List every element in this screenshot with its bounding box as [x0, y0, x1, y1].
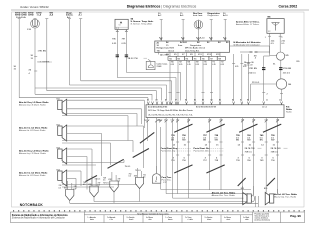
- G3 slash top: [239, 124, 257, 132]
- shield symbol on wire c: [194, 20, 203, 29]
- inline connector X8 on feed: [240, 52, 270, 60]
- radio out wires lower left: [95, 118, 161, 185]
- svg-text:15: 15: [184, 145, 187, 147]
- left connector label X6 on wire 2: [31, 51, 47, 61]
- svg-text:LS+ LS- RS+ RS- LD+ L: LS+ LS- RS+ RS- LD+ LD- RD+ RD- Tr.E+ Tr…: [148, 114, 193, 117]
- svg-text:SW: SW: [271, 140, 275, 142]
- speaker LD wires: [62, 149, 124, 190]
- funnel feed wires: [68, 168, 142, 190]
- bottom return wire 2: [94, 201, 247, 203]
- wire bundle line 2 (S4 left): [117, 77, 176, 79]
- speaker LD front label: [18, 148, 60, 156]
- svg-text:0.35 BN/WS: 0.35 BN/WS: [38, 62, 50, 64]
- rear speaker left wires: [243, 186, 259, 207]
- svg-text:15: 15: [14, 69, 17, 71]
- svg-text:K7: K7: [182, 54, 185, 56]
- G2 slash bottom: [206, 165, 224, 173]
- lower column G4 wire b: [276, 118, 279, 194]
- svg-text:3 = Fijación: 3 = Fijación: [205, 217, 213, 219]
- top-left feed label col 5: [79, 12, 83, 16]
- svg-text:Proveedor para Señal: Proveedor para Señal: [255, 212, 270, 215]
- antenna label left: [235, 20, 260, 26]
- lower column G3 wire b: [252, 118, 255, 196]
- I4 feed wire b: [182, 20, 184, 41]
- svg-text:14: 14: [205, 145, 208, 147]
- svg-text:1 = Aterrado: 1 = Aterrado: [88, 216, 96, 219]
- svg-text:764: 764: [185, 58, 188, 60]
- svg-text:A-A: A-A: [50, 14, 54, 17]
- svg-text:K-8: K-8: [209, 38, 213, 40]
- wire bundle line 1 (S4 right): [126, 71, 180, 73]
- lower column G1 wire b: [187, 118, 190, 199]
- svg-text:0.5: 0.5: [143, 177, 145, 179]
- svg-text:750: 750: [271, 160, 275, 162]
- svg-text:X32: X32: [108, 179, 111, 181]
- G1 door separator: [161, 147, 192, 153]
- svg-text:2 = Aterrado: 2 = Aterrado: [107, 216, 115, 219]
- footer legend cells: [88, 212, 271, 221]
- svg-text:B1 B2 B3 B4 B5 B6 B7 B8: B1 B2 B3 B4 B5 B6 B7 B8: [196, 107, 216, 109]
- M motor circle 2: [276, 79, 292, 101]
- speaker RS front label: [18, 125, 60, 133]
- rear return corner C: [173, 118, 244, 199]
- wire code labels above I4 box: [159, 38, 227, 40]
- svg-text:c/ fio: c/ fio: [110, 219, 113, 221]
- svg-text:15: 15: [31, 58, 34, 60]
- M5 motor circle: [277, 52, 290, 79]
- svg-text:758: 758: [215, 160, 219, 162]
- harness slash 2: [108, 159, 124, 168]
- S4 sensor box: [115, 19, 128, 30]
- svg-text:C1: C1: [266, 100, 268, 102]
- svg-text:214 0.5: 214 0.5: [249, 73, 257, 75]
- svg-text:15: 15: [249, 145, 252, 147]
- G4 slash top: [263, 124, 281, 132]
- svg-text:SW: SW: [215, 140, 219, 142]
- svg-text:X6: X6: [29, 70, 32, 72]
- pin labels above radio: [147, 99, 281, 102]
- G1 labels: [171, 135, 187, 162]
- funnel splice 1: [64, 187, 74, 203]
- svg-text:747 0.5: 747 0.5: [103, 183, 109, 185]
- svg-text:763: 763: [177, 58, 180, 60]
- funnel feed labels: [59, 174, 146, 191]
- R4 bottom pin labels: [158, 119, 279, 121]
- svg-text:MF Info Áudio Check: MF Info Áudio Check: [185, 46, 206, 49]
- wire feed 5: [80, 19, 82, 81]
- svg-text:BN: BN: [260, 140, 263, 142]
- G4 slash bottom: [267, 178, 275, 186]
- svg-text:4 = Massa: 4 = Massa: [146, 217, 153, 219]
- top-left feed label col 3: [36, 12, 42, 16]
- G4 separator: [271, 148, 288, 154]
- svg-text:0.35: 0.35: [179, 64, 182, 66]
- harness bundle horizontals: [19, 72, 180, 100]
- speaker RD front symbol: [58, 170, 67, 186]
- labels below M5: [244, 62, 276, 67]
- right loop wire to radio: [251, 82, 277, 101]
- svg-text:0.5: 0.5: [129, 176, 131, 178]
- svg-text:Ant. Elétr.: Ant. Elétr.: [160, 54, 170, 57]
- svg-text:Puerta Del. Izq.: Puerta Del. Izq.: [161, 150, 176, 153]
- wire bundle line 8 (feed 1): [19, 97, 148, 99]
- svg-text:15: 15: [216, 145, 219, 147]
- svg-text:765: 765: [194, 58, 197, 60]
- header rule: [11, 9, 309, 11]
- top-left feed label col 2: [28, 12, 34, 16]
- I4 top feed label 30: [158, 13, 162, 17]
- svg-text:Diagramas Elétricos | Diagrama: Diagramas Elétricos | Diagramas Eléctric…: [127, 5, 197, 9]
- svg-text:757: 757: [203, 160, 207, 162]
- S4 stub forks: [116, 30, 127, 32]
- svg-text:X30: X30: [64, 187, 67, 189]
- svg-text:0.35: 0.35: [204, 64, 207, 66]
- svg-text:0.35: 0.35: [112, 43, 117, 45]
- I4 top feed label ilum: [193, 13, 203, 17]
- svg-text:cable: cable: [245, 219, 249, 221]
- svg-text:768: 768: [218, 58, 221, 60]
- footer left text: [12, 214, 69, 220]
- wire feed 1: [18, 19, 20, 98]
- rear speaker left label: [211, 188, 244, 197]
- svg-text:B1: B1: [185, 100, 187, 102]
- svg-text:Radio: Radio: [286, 112, 292, 114]
- svg-text:A-2: A-2: [158, 14, 162, 17]
- svg-text:14: 14: [238, 145, 241, 147]
- I4 top feed label diagnostico: [208, 12, 221, 17]
- svg-text:0.5: 0.5: [271, 43, 275, 45]
- svg-text:Sinais de massa p/ os: Sinais de massa p/ os: [255, 215, 270, 217]
- harness slash 3: [133, 149, 149, 158]
- svg-text:0.5: 0.5: [98, 185, 100, 187]
- top-left feed label col 3b: [50, 12, 54, 16]
- svg-text:751 0.5: 751 0.5: [135, 170, 141, 172]
- I4 feed wire a: [160, 20, 162, 41]
- svg-text:1 2: 1 2: [268, 31, 270, 33]
- svg-text:0.5: 0.5: [74, 188, 76, 190]
- svg-text:RD: RD: [297, 61, 301, 63]
- svg-text:A4 A10: A4 A10: [180, 41, 188, 44]
- wire bundle line 6 (feed 3): [47, 90, 157, 92]
- svg-text:Versão / Version: 5951/02: Versão / Version: 5951/02: [20, 6, 49, 9]
- R4 box inner pin labels: [148, 106, 267, 117]
- wire down mid right: [264, 56, 270, 101]
- I4 box inner pin text top row: [157, 41, 230, 45]
- svg-text:215 0.5: 215 0.5: [283, 73, 291, 75]
- svg-text:K-6: K-6: [181, 38, 185, 40]
- wire feed 3: [46, 19, 48, 91]
- svg-text:3: 3: [238, 157, 240, 159]
- svg-text:753: 753: [158, 120, 161, 122]
- svg-text:Antena Elétr. C/ Telesc.: Antena Elétr. C/ Telesc.: [236, 20, 260, 23]
- I4 feed wire e: [224, 20, 226, 41]
- left connector label X2 on wire 2: [38, 62, 53, 64]
- svg-text:K9: K9: [190, 54, 193, 56]
- svg-text:1791 BN: 1791 BN: [249, 68, 258, 70]
- I4 below-connector labels: [171, 61, 224, 65]
- speaker RD wires: [62, 171, 137, 189]
- svg-text:K11: K11: [198, 54, 202, 56]
- svg-text:213 0.5: 213 0.5: [252, 82, 260, 84]
- svg-text:Alto-fal. Esq. LD Diant. Rádio: Alto-fal. Esq. LD Diant. Rádio: [19, 150, 49, 153]
- svg-text:Antena Eléctr. C/ Telesc.: Antena Eléctr. C/ Telesc.: [235, 23, 260, 26]
- svg-text:0.35: 0.35: [122, 43, 127, 45]
- top-left feed label col 4: [66, 12, 74, 18]
- coordinate ruler dots: [13, 210, 305, 211]
- svg-text:Altavoz Izq. Tras. Radio: Altavoz Izq. Tras. Radio: [273, 196, 297, 199]
- svg-text:BN: BN: [203, 140, 206, 142]
- svg-text:Altavoz Izq. LS Diant. Radio: Altavoz Izq. LS Diant. Radio: [18, 104, 46, 107]
- lower column G2 wire b: [220, 118, 223, 191]
- top-left feed label col 1: [15, 12, 27, 18]
- lower column G2 wire a: [208, 118, 211, 191]
- svg-text:Sistema de Radio/Audio e Infor: Sistema de Radio/Audio e Información del…: [12, 217, 65, 220]
- svg-text:K-2: K-2: [159, 38, 163, 40]
- rear antenna dome connector: [152, 166, 172, 184]
- svg-text:C2: C2: [279, 100, 281, 102]
- svg-text:Data Temp.Ext.: Data Temp.Ext.: [185, 49, 200, 52]
- funnel splice 2: [88, 184, 98, 202]
- wire bundle line 5 (feed 2): [35, 87, 162, 89]
- svg-text:3: 3: [205, 157, 207, 159]
- R4 input arrows on top edge: [147, 102, 282, 105]
- svg-text:NOTCHBACK: NOTCHBACK: [20, 203, 44, 207]
- svg-text:3: 3: [261, 157, 263, 159]
- R4 label right: [286, 106, 293, 114]
- svg-text:M5: M5: [286, 55, 290, 57]
- wire bundle line 3 (feed 5): [81, 80, 172, 82]
- svg-text:15: 15: [273, 145, 276, 147]
- coax feed from I4: [128, 52, 170, 61]
- left wire tick labels lower: [29, 70, 38, 76]
- funnel splice 3: [108, 179, 118, 204]
- svg-text:K5: K5: [174, 54, 177, 56]
- speaker RS wires: [62, 126, 144, 176]
- svg-text:Relógio Data RDS: Relógio Data RDS: [157, 46, 175, 49]
- svg-text:750 0.5: 750 0.5: [125, 166, 131, 168]
- svg-text:0.35: 0.35: [235, 66, 238, 68]
- svg-text:F16: F16: [27, 29, 31, 31]
- svg-text:746 0.5: 746 0.5: [95, 179, 101, 181]
- I4 box inner text rows: [157, 44, 206, 53]
- harness slash 1: [86, 176, 98, 182]
- svg-text:6: 6: [216, 157, 218, 159]
- svg-text:chassi: chassi: [129, 219, 134, 221]
- svg-text:2: 2: [282, 37, 283, 39]
- connector ticks right area: [262, 93, 283, 96]
- lower column G4 wire a: [265, 118, 268, 193]
- rear speaker right wires: [266, 186, 277, 194]
- G1 slash top: [174, 124, 192, 132]
- svg-text:X33: X33: [134, 175, 137, 177]
- svg-text:Alto-fal. Esq. LS Diant. Rádio: Alto-fal. Esq. LS Diant. Rádio: [19, 101, 49, 104]
- svg-text:B2: B2: [194, 100, 196, 102]
- frame left small labels: [14, 66, 17, 71]
- svg-text:C/TID: C/TID: [28, 15, 34, 17]
- svg-text:B8: B8: [247, 100, 249, 102]
- svg-text:0.5: 0.5: [281, 43, 285, 45]
- svg-text:14: 14: [261, 145, 264, 147]
- M6 wire down 1: [265, 33, 275, 53]
- svg-text:749: 749: [260, 160, 264, 162]
- svg-text:B3: B3: [202, 100, 204, 102]
- svg-text:766: 766: [202, 58, 205, 60]
- svg-text:SW: SW: [247, 140, 251, 142]
- svg-text:S4: S4: [119, 24, 121, 26]
- svg-text:SW: SW: [182, 140, 186, 142]
- svg-text:Altavoz Izq. LD Diant. Radio: Altavoz Izq. LD Diant. Radio: [18, 152, 47, 155]
- G2 slash top: [206, 124, 224, 132]
- svg-text:Masa 30: Masa 30: [244, 64, 253, 66]
- G3 separator: [245, 148, 262, 154]
- svg-text:X31: X31: [88, 184, 91, 186]
- svg-text:Porta Diant. Dir.: Porta Diant. Dir.: [194, 147, 210, 150]
- svg-text:Alto-fal. LE Tras. Rádio: Alto-fal. LE Tras. Rádio: [274, 193, 298, 196]
- M6 antenna unit box: [267, 19, 284, 34]
- svg-text:B16: B16: [264, 188, 267, 190]
- svg-text:1: 1: [265, 37, 266, 39]
- svg-text:Corsa 2002: Corsa 2002: [279, 5, 298, 9]
- svg-text:2B.7E.749: 2B.7E.749: [271, 148, 282, 150]
- I4 top feed label 15: [180, 13, 184, 17]
- I4 display box: [155, 41, 230, 52]
- inline connector bars on wire 263.7: [249, 67, 266, 74]
- svg-text:Pág. 96: Pág. 96: [290, 214, 301, 218]
- I4 feed wire d: [210, 20, 212, 41]
- svg-text:759: 759: [236, 160, 240, 162]
- svg-text:31: 31: [155, 181, 157, 183]
- I4 label right: [234, 41, 262, 47]
- svg-text:4: 4: [29, 73, 31, 75]
- wire feed 2 (through fuse): [34, 18, 36, 21]
- svg-text:Cabo Coax.: Cabo Coax.: [157, 64, 169, 66]
- wire bundle line 4 (feed 4): [70, 84, 167, 86]
- svg-text:3: 3: [173, 157, 175, 159]
- svg-text:M4: M4: [288, 84, 292, 86]
- svg-text:30: 30: [31, 55, 34, 57]
- G2 door separator: [194, 147, 225, 153]
- svg-text:A1 A2 A3 A4 A5 A6 A7 A8: A1 A2 A3 A4 A5 A6 A7 A8: [148, 106, 167, 109]
- svg-text:Altavoz Der. Tras. Radio: Altavoz Der. Tras. Radio: [211, 194, 236, 197]
- svg-text:4: 4: [255, 58, 257, 60]
- svg-text:BN: BN: [236, 140, 239, 142]
- svg-text:1 2: 1 2: [116, 28, 118, 30]
- svg-text:M6: M6: [268, 17, 272, 19]
- I4 top feed label 30b: [223, 13, 228, 17]
- svg-text:31: 31: [273, 64, 276, 66]
- S4 wire right: [122, 29, 129, 72]
- svg-text:0.5: 0.5: [103, 180, 105, 182]
- svg-text:762: 762: [169, 58, 172, 60]
- svg-text:Diagnóstico: Diagnóstico: [190, 44, 202, 47]
- svg-text:0.5: 0.5: [59, 187, 61, 189]
- speaker LS wires: [62, 100, 144, 140]
- G2 labels: [203, 135, 219, 162]
- svg-text:2: 2: [267, 94, 269, 96]
- funnel splice 4: [134, 175, 144, 201]
- svg-text:c/ cable: c/ cable: [188, 219, 193, 221]
- lower column G3 wire a: [241, 118, 244, 193]
- svg-text:2B.7E.759: 2B.7E.759: [245, 148, 256, 150]
- speaker LS front label: [18, 99, 60, 107]
- I4 bottom pin labels: [166, 54, 221, 56]
- antenna coax connector: [146, 61, 168, 69]
- svg-text:756: 756: [182, 160, 186, 162]
- speaker LS front symbol: [58, 99, 67, 115]
- svg-text:0.35: 0.35: [171, 64, 174, 66]
- G4 labels: [260, 134, 276, 162]
- svg-text:A-6: A-6: [180, 14, 184, 17]
- wire bundle line 7 (feed 2b): [35, 93, 152, 95]
- svg-text:chasis: chasis: [207, 219, 212, 221]
- rear return corner A: [161, 127, 251, 189]
- frame border: [12, 12, 305, 207]
- I4 input arrows: [160, 38, 226, 41]
- svg-text:15-A: 15-A: [37, 14, 42, 17]
- speaker RS front symbol: [58, 125, 67, 141]
- svg-text:K13: K13: [207, 54, 212, 56]
- svg-text:Alto-fal. Int. LD Diant. Rádio: Alto-fal. Int. LD Diant. Rádio: [19, 127, 48, 130]
- svg-text:C1 C2: C1 C2: [262, 107, 267, 109]
- svg-text:A-1: A-1: [79, 14, 83, 17]
- S4 wire left: [112, 29, 119, 77]
- rear speaker right label: [264, 188, 298, 198]
- R4 output slash ticks: [146, 120, 279, 123]
- svg-text:0.35: 0.35: [221, 64, 224, 66]
- G3 labels: [236, 135, 252, 162]
- svg-text:1791 BN: 1791 BN: [38, 51, 47, 53]
- svg-text:1790 BN: 1790 BN: [283, 68, 292, 70]
- svg-text:Altavoz Int. LD Diant. Radio: Altavoz Int. LD Diant. Radio: [18, 174, 46, 177]
- svg-text:30 15 Ilum. TID Diagn: 30 15 Ilum. TID Diagn. Mudo NF NF Ant. E…: [148, 109, 193, 112]
- fuse F16 circle: [27, 19, 39, 31]
- svg-text:S. Sensor. Temp. Amb.: S. Sensor. Temp. Amb.: [131, 23, 153, 26]
- svg-text:I4 Mostrador Inf. Motorista: I4 Mostrador Inf. Motorista: [234, 41, 262, 44]
- svg-text:Terra (Massa) / Conexión de ma: Terra (Massa) / Conexión de masa a tierr…: [137, 212, 169, 215]
- svg-text:2 = Tierra: 2 = Tierra: [185, 216, 192, 219]
- M6 wire down 2: [279, 33, 286, 52]
- R4 radio box: [146, 105, 284, 118]
- svg-text:K-1: K-1: [223, 38, 227, 40]
- svg-text:Alto-fal. Int. LD Diant. Rádio: Alto-fal. Int. LD Diant. Rádio: [19, 172, 48, 175]
- svg-text:Sistema de Rádio/Áudio e Infor: Sistema de Rádio/Áudio e Informações do …: [12, 214, 69, 217]
- svg-text:767: 767: [210, 58, 213, 60]
- svg-text:3 = Fixação: 3 = Fixação: [127, 216, 135, 219]
- inline connector bars on wire 281: [279, 67, 291, 74]
- rear speaker left symbol: [243, 192, 255, 204]
- svg-text:760: 760: [247, 160, 251, 162]
- svg-text:30-A 30-A: 30-A 30-A: [16, 16, 26, 19]
- svg-text:755: 755: [171, 160, 175, 162]
- svg-text:752: 752: [144, 120, 147, 122]
- rear speaker right symbol: [265, 192, 274, 204]
- svg-text:749 0.5: 749 0.5: [271, 152, 279, 154]
- svg-text:14: 14: [173, 145, 176, 147]
- svg-text:Para Tras.: Para Tras.: [162, 179, 172, 181]
- svg-text:Ilum.: Ilum.: [178, 45, 183, 47]
- footer outer box: [11, 212, 305, 223]
- svg-text:5 = Blind.: 5 = Blind.: [243, 217, 250, 219]
- rear return corner B: [166, 118, 248, 194]
- wire feed 4: [69, 19, 71, 85]
- mid wire ticks: [169, 92, 214, 94]
- I4 output wires down to radio: [170, 52, 220, 101]
- svg-text:Alto-fal. LD Tras. Rádio: Alto-fal. LD Tras. Rádio: [212, 191, 236, 194]
- svg-text:0.35: 0.35: [212, 64, 215, 66]
- I4 connector row boxes: [168, 57, 225, 61]
- svg-text:Check: Check: [168, 50, 175, 52]
- svg-text:B5: B5: [219, 100, 221, 102]
